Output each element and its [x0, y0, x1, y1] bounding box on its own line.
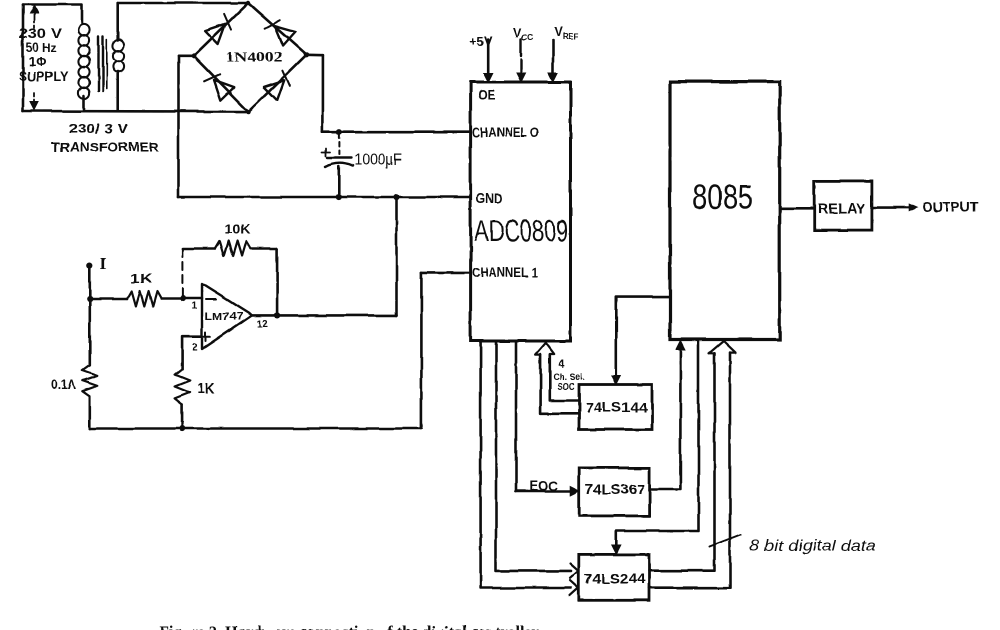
wire: resistor to inverting junction — [161, 297, 202, 300]
bus arrow into 8085 bottom (8 bit data) — [709, 341, 736, 353]
svg-text:230/ 3 V: 230/ 3 V — [68, 121, 128, 136]
node: capacitor top junction — [336, 129, 342, 135]
wire: 74LS244 output upper — [649, 353, 715, 570]
wire: +5V arrow — [487, 40, 490, 75]
wire: VREF arrow — [552, 40, 555, 75]
svg-text:74LS144: 74LS144 — [585, 400, 648, 415]
op-amp non-inverting plus sign — [201, 336, 210, 338]
op-amp inverting input minus sign — [206, 299, 216, 301]
wire: EOC to 74LS367 with arrow — [516, 490, 572, 493]
wire: relay to output with arrow — [872, 206, 910, 209]
resistor R3 1K (vertical) — [175, 369, 190, 405]
wire: feedback down to output — [276, 249, 279, 316]
capacitor C1 dashed top lead — [338, 134, 340, 155]
svg-text:8 bit digital data: 8 bit digital data — [749, 538, 876, 555]
wire: bridge right vertical down — [322, 55, 325, 132]
svg-text:TRANSFORMER: TRANSFORMER — [52, 141, 159, 155]
wire: ADC EOC down — [515, 343, 518, 492]
diode D4 (bottom-right arm) — [264, 80, 284, 100]
svg-text:VCC: VCC — [513, 26, 533, 42]
transformer core — [97, 36, 99, 91]
node: bridge top vertex — [246, 1, 250, 5]
svg-text:OE: OE — [479, 87, 496, 103]
wire: secondary top lead — [116, 3, 119, 41]
supply dimension arrow down — [33, 93, 35, 103]
svg-text:RELAY: RELAY — [818, 202, 866, 218]
wire: I node down to input junction — [89, 266, 92, 299]
diode D1 (top-left arm) — [205, 24, 225, 44]
wire: Vcc arrow — [520, 39, 522, 75]
wire: 8085 to 74LS244 enable — [616, 341, 698, 548]
wire: primary bottom lead — [83, 96, 86, 111]
resistor R2 10K (feedback) — [215, 241, 251, 256]
wire: ground rail to ADC GND — [179, 196, 471, 199]
bridge diamond wire BL — [194, 56, 249, 112]
wire: R3 bottom lead — [181, 404, 184, 428]
svg-text:SUPPLY: SUPPLY — [19, 69, 69, 84]
svg-text:1N4002: 1N4002 — [226, 50, 283, 65]
svg-text:I: I — [100, 255, 107, 274]
svg-text:Figure 2. Hardware connection: Figure 2. Hardware connection of the dig… — [159, 623, 539, 630]
74LS144 U4 box — [579, 385, 652, 430]
svg-text:1000μF: 1000μF — [354, 152, 402, 169]
pointer line for 8 bit data label — [710, 535, 741, 547]
wire: dashed feedback riser — [182, 249, 184, 297]
capacitor C1 bottom plate (curved) — [326, 163, 353, 167]
bridge diamond wire TR — [248, 3, 306, 55]
wire: 74LS144 output upper to bus — [550, 355, 579, 401]
node: output junction — [274, 312, 280, 318]
wire: 74LS144 output lower to bus — [541, 355, 579, 414]
capacitor C1 bottom lead — [337, 166, 340, 197]
relay K1 box — [814, 181, 872, 230]
resistor R4 0.1 ohm (vertical) — [82, 365, 97, 397]
svg-text:12: 12 — [257, 319, 269, 330]
8085 U3 box — [670, 82, 780, 340]
diode D2 (top-right arm) — [274, 26, 295, 46]
wire: bridge left vertex stub — [179, 54, 194, 57]
wire: bridge left vertical down to ground rail — [177, 56, 180, 197]
svg-text:LM747: LM747 — [205, 311, 243, 323]
wire: input lead to resistor 1K — [90, 297, 128, 300]
svg-text:1K: 1K — [197, 380, 215, 397]
hollow arrowhead lower input — [570, 581, 578, 596]
bridge diamond wire BR — [249, 55, 307, 112]
svg-text:50 Hz: 50 Hz — [26, 40, 57, 55]
ADC0809 U2 box — [471, 82, 571, 341]
node: capacitor bottom junction — [336, 194, 342, 200]
node: inverting input junction — [180, 295, 186, 301]
bus arrow into ADC bottom (ch sel / SOC) — [536, 343, 555, 355]
supply dimension arrow up — [33, 11, 35, 22]
hollow arrowhead upper input — [570, 564, 578, 579]
op-amp U1 LM747 triangle — [202, 284, 252, 349]
transformer primary winding — [78, 24, 89, 99]
svg-text:0.1Λ: 0.1Λ — [51, 378, 77, 392]
wire: ADC data line 2 to 74LS244 — [481, 343, 571, 589]
wire: feedback top left segment — [183, 247, 215, 250]
wire: channel 1 riser — [420, 273, 423, 429]
svg-text:ADC0809: ADC0809 — [474, 213, 568, 248]
wire: bottom rail supply to bridge bottom vertex — [23, 110, 249, 113]
svg-text:74LS367: 74LS367 — [585, 482, 645, 497]
wire: 8085 to relay — [780, 207, 815, 210]
wire: secondary top to bridge top vertex — [118, 2, 248, 5]
wire: R4 bottom lead — [89, 397, 92, 429]
node: bridge left vertex — [191, 53, 196, 58]
node: current input I — [87, 263, 93, 269]
node: R3 to bottom rail junction — [179, 425, 185, 431]
svg-text:1K: 1K — [130, 271, 153, 286]
node: op-amp output to ground rail junction — [393, 194, 399, 200]
wire: output riser to ground rail — [395, 197, 398, 315]
capacitor C1 polarity + — [322, 151, 330, 153]
svg-text:10K: 10K — [225, 222, 252, 237]
wire: op-amp output line — [252, 314, 397, 317]
diode D3 (bottom-left arm) — [214, 80, 234, 100]
svg-text:EOC: EOC — [530, 479, 558, 494]
svg-text:SOC: SOC — [558, 382, 575, 393]
svg-text:VREF: VREF — [554, 25, 578, 41]
node: AC supply left rail — [22, 5, 25, 112]
wire: 74LS367 output to 8085 — [650, 347, 681, 490]
node: bridge right vertex — [304, 52, 309, 57]
wire: 8085 to 74LS144 select — [616, 297, 670, 378]
wire: supply top — [23, 5, 82, 24]
svg-text:GND: GND — [476, 191, 502, 206]
bridge diamond wire TL — [194, 3, 248, 56]
capacitor C1 top plate — [328, 156, 352, 158]
wire: channel 1 line into ADC — [421, 272, 470, 275]
svg-text:1Φ: 1Φ — [29, 54, 47, 69]
transformer secondary winding — [113, 40, 124, 72]
svg-text:4: 4 — [558, 359, 565, 371]
resistor R1 1K (horizontal) — [128, 291, 162, 306]
wire: pin 2 lead left — [182, 337, 202, 369]
wire: secondary bottom lead — [116, 72, 119, 112]
node: input junction — [87, 295, 93, 301]
svg-text:230 V: 230 V — [19, 26, 62, 41]
wire: feedback top right segment — [251, 247, 278, 250]
svg-text:OUTPUT: OUTPUT — [922, 200, 979, 215]
wire: left branch down to R4 — [89, 299, 92, 365]
74LS367 U5 box — [579, 468, 649, 516]
svg-text:1: 1 — [192, 301, 198, 312]
74LS244 U6 box — [579, 554, 649, 600]
svg-text:8085: 8085 — [692, 179, 753, 217]
wire: ADC data line 1 to 74LS244 — [496, 343, 571, 571]
svg-text:CHANNEL 1: CHANNEL 1 — [472, 265, 538, 280]
wire: channel 0 line into ADC — [323, 130, 471, 133]
svg-text:CHANNEL O: CHANNEL O — [472, 125, 539, 140]
wire: bottom rail of op-amp stage — [90, 427, 422, 430]
svg-text:74LS244: 74LS244 — [584, 572, 646, 587]
svg-text:2: 2 — [192, 343, 198, 354]
wire: 74LS244 output lower — [649, 353, 730, 588]
node: bridge bottom vertex — [246, 109, 250, 113]
wire: bridge right vertex stub — [306, 53, 323, 56]
